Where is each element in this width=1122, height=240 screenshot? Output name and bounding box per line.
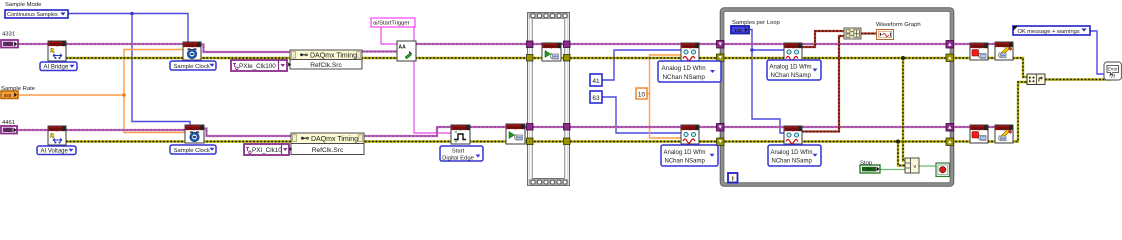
wire error row1 olive xyxy=(66,58,1027,77)
svg-text:Continuous Samples: Continuous Samples xyxy=(7,12,58,18)
tunnel seq row1 error left xyxy=(527,55,534,62)
svg-text:?!: ?! xyxy=(1110,74,1115,80)
svg-text:Digital Edge: Digital Edge xyxy=(442,155,474,161)
wire waveform row2 red xyxy=(802,36,844,132)
string constant ai/StartTrigger xyxy=(371,18,415,27)
wire error row2 olive xyxy=(66,82,1027,142)
DAQmx start task VI row1 xyxy=(542,43,561,61)
svg-text:NChan NSamp: NChan NSamp xyxy=(772,159,813,165)
io name constant PXIe_Clk100 xyxy=(231,60,287,71)
svg-text:AA: AA xyxy=(399,45,407,51)
wire task row1 purple xyxy=(18,44,995,52)
svg-text:DAQmx: DAQmx xyxy=(453,126,466,130)
DAQmx read VI row1 inside loop xyxy=(784,43,802,61)
svg-text:Start: Start xyxy=(452,148,465,154)
svg-text:4461: 4461 xyxy=(2,120,15,126)
node error junction row1 xyxy=(901,56,905,60)
svg-text:DAQmx: DAQmx xyxy=(544,44,557,48)
svg-text:63: 63 xyxy=(592,95,600,102)
svg-text:PXIe_Clk100: PXIe_Clk100 xyxy=(239,63,276,70)
shift register row1 error right xyxy=(946,54,954,62)
svg-text:I/O: I/O xyxy=(5,128,11,133)
sample rate terminal xyxy=(1,91,18,99)
wire timeout 10 orange xyxy=(647,55,681,138)
enum constant continuous samples xyxy=(5,10,68,18)
wires layer xyxy=(16,12,1110,170)
svg-text:DAQmx: DAQmx xyxy=(50,42,63,46)
shift register row2 error right xyxy=(946,138,954,146)
DAQmx timing express VI row1 xyxy=(288,50,362,69)
selector analog wfm row2 inside xyxy=(768,145,821,166)
io name constant PXI_Clk10 xyxy=(244,144,289,155)
svg-text:DAQmx: DAQmx xyxy=(185,43,198,47)
wire trigger pink xyxy=(381,27,451,133)
svg-text:i: i xyxy=(732,176,734,183)
DAQmx read VI row2 outside loop xyxy=(681,125,699,144)
svg-text:NChan NSamp: NChan NSamp xyxy=(771,73,812,79)
wire sample mode blue xyxy=(68,14,190,126)
DAQmx stop task VI row2 xyxy=(970,125,988,143)
wire ok-message blue xyxy=(1090,31,1104,74)
svg-text:Error: Error xyxy=(1108,67,1118,72)
svg-text:DAQmx: DAQmx xyxy=(972,126,985,130)
wire or to conditional green xyxy=(919,165,936,167)
samples per loop terminal xyxy=(731,26,749,34)
svg-text:AI Voltage: AI Voltage xyxy=(41,149,69,155)
merge errors VI xyxy=(1027,74,1045,85)
svg-text:I/O: I/O xyxy=(5,42,11,47)
wire waveform to graph xyxy=(861,32,877,34)
node sample rate junction xyxy=(122,93,126,97)
tunnel seq row1 task left xyxy=(527,41,534,48)
io constant 4461 xyxy=(1,126,17,134)
selector Sample Clock row2 xyxy=(170,145,216,154)
svg-text:DAQmx: DAQmx xyxy=(187,126,200,130)
svg-text:NChan NSamp: NChan NSamp xyxy=(663,74,706,81)
svg-text:Waveform Graph: Waveform Graph xyxy=(876,22,921,28)
svg-text:DAQmx: DAQmx xyxy=(786,44,799,48)
selector AI Voltage row2 xyxy=(37,146,76,155)
svg-text:132: 132 xyxy=(734,28,742,33)
svg-text:Analog 1D Wfm: Analog 1D Wfm xyxy=(770,64,812,70)
wire error branch row2 to or xyxy=(898,142,905,166)
svg-text:ai/StartTrigger: ai/StartTrigger xyxy=(373,21,410,27)
tunnels layer xyxy=(527,41,954,146)
shift register row2 error left xyxy=(717,138,725,146)
shift register row1 task left xyxy=(717,41,725,49)
selector AI Bridge xyxy=(40,62,77,71)
selector analog wfm row2 outside xyxy=(661,145,718,166)
DAQmx start task VI row2 xyxy=(506,124,525,144)
svg-text:888: 888 xyxy=(4,93,12,98)
selector Sample Clock row1 xyxy=(170,61,216,70)
numeric constant 63 xyxy=(590,91,602,103)
numeric constant 41 xyxy=(590,74,602,86)
svg-text:Analog 1D Wfm: Analog 1D Wfm xyxy=(771,150,813,156)
svg-text:Samples per Loop: Samples per Loop xyxy=(732,20,781,26)
DAQmx clear task VI row1 xyxy=(995,42,1013,60)
svg-text:DAQmx: DAQmx xyxy=(50,127,63,131)
svg-text:4331: 4331 xyxy=(2,32,15,38)
svg-text:DAQmx Timing: DAQmx Timing xyxy=(311,136,358,143)
wire sample rate orange xyxy=(18,50,185,133)
svg-text:DAQmx: DAQmx xyxy=(786,127,799,131)
svg-text:DAQmx Timing: DAQmx Timing xyxy=(310,52,357,59)
DAQmx start trigger VI (AA) xyxy=(397,41,416,61)
enum constant ok message xyxy=(1013,26,1090,35)
shift register row1 task right xyxy=(946,41,954,49)
svg-text:NChan NSamp: NChan NSamp xyxy=(665,159,706,165)
svg-text:AI Bridge: AI Bridge xyxy=(44,65,69,71)
DAQmx create channel VI row1 xyxy=(48,41,66,61)
DAQmx create channel VI row2 xyxy=(48,126,66,145)
DAQmx sample clock VI row2 xyxy=(185,125,204,143)
wire task row2 purple xyxy=(16,127,995,136)
tunnel seq row2 task left xyxy=(527,124,534,131)
svg-text:Analog 1D Wfm: Analog 1D Wfm xyxy=(664,150,706,156)
waveform graph terminal xyxy=(877,30,894,40)
svg-text:Analog 1D Wfm: Analog 1D Wfm xyxy=(662,65,706,72)
tunnel seq row2 error left xyxy=(527,138,534,145)
tunnel seq row2 task right xyxy=(564,124,571,131)
node error junction row2 xyxy=(896,140,900,144)
selector start digital edge xyxy=(440,146,483,161)
io constant 4331 xyxy=(1,40,18,48)
tunnel seq row1 error right xyxy=(564,55,571,62)
DAQmx sample clock VI row1 xyxy=(183,42,201,60)
selector analog wfm row1 outside xyxy=(658,61,721,82)
svg-text:DAQmx: DAQmx xyxy=(972,44,985,48)
svg-text:DAQmx: DAQmx xyxy=(683,44,696,48)
DAQmx read VI row2 inside loop xyxy=(784,126,802,144)
interleave arrays node xyxy=(844,28,861,39)
shift register row1 error left xyxy=(717,54,725,62)
shift register row2 task left xyxy=(717,124,725,132)
svg-text:v: v xyxy=(914,164,917,170)
wire constant 41 blue xyxy=(602,50,681,80)
svg-text:Sample Mode: Sample Mode xyxy=(5,2,42,8)
node sample mode junction xyxy=(130,12,134,16)
svg-text:Sample Clock: Sample Clock xyxy=(174,64,210,70)
DAQmx timing express VI row2 xyxy=(289,133,364,155)
labels layer xyxy=(1,2,921,166)
svg-text:RefClk.Src: RefClk.Src xyxy=(310,62,342,69)
DAQmx clear task VI row2 xyxy=(995,125,1013,143)
tunnel seq row2 error right xyxy=(564,138,571,145)
svg-text:Sample Rate: Sample Rate xyxy=(1,86,36,92)
wire error branch row1 to or xyxy=(903,58,905,161)
simple error handler VI xyxy=(1104,62,1122,80)
wire constant 63 blue xyxy=(602,97,681,133)
wire error merged to handler xyxy=(1045,76,1110,80)
svg-text:TF: TF xyxy=(866,167,872,172)
compound or node xyxy=(905,158,919,173)
shift register row2 task right xyxy=(946,124,954,132)
loop iteration terminal xyxy=(728,173,738,183)
nodes layer xyxy=(1,10,1122,183)
svg-text:Sample Clock: Sample Clock xyxy=(174,148,210,154)
svg-text:Stop: Stop xyxy=(860,160,873,166)
DAQmx read VI row1 outside loop xyxy=(681,43,699,61)
tunnel seq row1 task right xyxy=(564,41,571,48)
svg-text:DAQmx: DAQmx xyxy=(508,125,521,129)
selector analog wfm row1 inside xyxy=(767,60,821,80)
node samples-per-loop junction xyxy=(750,48,754,52)
wire waveform row1 red xyxy=(802,31,844,47)
wire stop green xyxy=(880,169,905,171)
svg-text:41: 41 xyxy=(592,78,600,85)
while loop border xyxy=(720,8,954,187)
svg-text:DAQmx: DAQmx xyxy=(683,126,696,130)
svg-text:RefClk.Src: RefClk.Src xyxy=(312,147,344,154)
svg-text:10: 10 xyxy=(638,92,646,99)
stop boolean terminal xyxy=(860,165,880,173)
DAQmx start trigger digital edge VI row2 xyxy=(451,125,470,144)
svg-text:OK message + warnings: OK message + warnings xyxy=(1018,29,1080,35)
flat sequence structure border xyxy=(528,13,570,186)
loop conditional terminal xyxy=(936,163,950,177)
wire samples-per-loop blue xyxy=(749,30,784,134)
DAQmx stop task VI row1 xyxy=(970,43,988,60)
svg-text:PXI_Clk10: PXI_Clk10 xyxy=(252,147,282,154)
numeric constant 10 xyxy=(636,88,647,99)
